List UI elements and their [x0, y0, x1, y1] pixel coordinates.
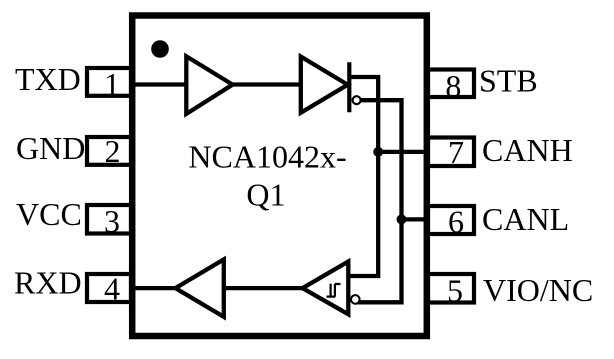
svg-text:2: 2 [105, 133, 121, 169]
svg-text:RXD: RXD [14, 264, 82, 300]
svg-text:TXD: TXD [15, 61, 81, 97]
svg-text:5: 5 [447, 273, 463, 309]
svg-text:CANL: CANL [482, 201, 569, 237]
pin 3 box [87, 205, 131, 234]
svg-text:CANH: CANH [482, 132, 573, 168]
pin 1 box [87, 68, 131, 96]
junction node CANL [397, 214, 407, 224]
pin 7 box [428, 138, 474, 167]
svg-text:4: 4 [104, 270, 120, 306]
wire pin1 to input buffer [131, 82, 186, 86]
CAN driver A2 triangle [301, 57, 348, 113]
svg-text:VIO/NC: VIO/NC [483, 272, 593, 308]
receiver A3 triangle (hysteresis comparator) [303, 262, 349, 315]
pin 8 box [428, 70, 474, 98]
svg-text:NCA1042x-: NCA1042x- [188, 139, 346, 175]
hysteresis symbol inside receiver [327, 284, 341, 297]
junction node CANH [373, 147, 383, 157]
pin 4 box [87, 274, 131, 302]
wire buffer to CAN driver [233, 82, 300, 86]
IC body U1 (NCA1042x-Q1 package outline) [132, 16, 427, 337]
wire RXD buffer to pin 4 [131, 286, 175, 290]
svg-text:GND: GND [16, 130, 85, 166]
svg-text:8: 8 [445, 68, 461, 104]
driver inverting-output bubble [353, 96, 361, 104]
wire CANL stub to pin 6 [402, 217, 429, 221]
svg-text:STB: STB [479, 63, 538, 99]
wire receiver to RXD buffer [224, 286, 303, 290]
input buffer A1 (TXD buffer triangle) [186, 56, 232, 114]
svg-text:7: 7 [448, 134, 464, 170]
wire CANL net (driver bubble down to receiver bubble) [357, 100, 402, 302]
receiver inverting-input bubble [351, 295, 360, 304]
pin 6 box [428, 206, 474, 234]
wire CANH stub to pin 7 [378, 150, 428, 154]
svg-text:Q1: Q1 [246, 176, 285, 212]
svg-text:VCC: VCC [16, 196, 82, 232]
svg-text:1: 1 [104, 66, 120, 102]
svg-text:3: 3 [104, 203, 120, 239]
pin 2 box [87, 137, 131, 165]
wire CANH net (driver top output down to receiver top input) [348, 77, 378, 276]
RXD output buffer A4 triangle [175, 259, 223, 316]
pin-1 indicator dot [151, 40, 169, 58]
pin 5 box [428, 274, 474, 303]
driver output bar [347, 62, 351, 112]
svg-text:6: 6 [448, 204, 464, 240]
